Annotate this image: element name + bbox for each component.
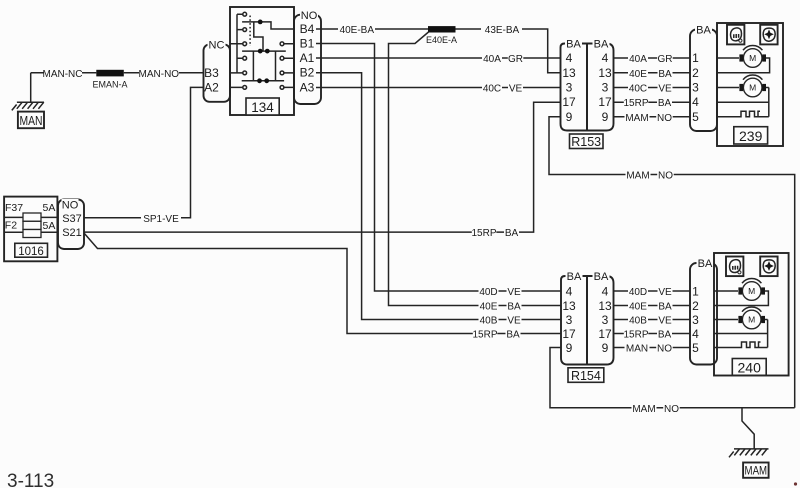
svg-text:VE: VE — [507, 287, 521, 298]
svg-text:MAN-NO: MAN-NO — [139, 69, 180, 80]
svg-text:15RP: 15RP — [623, 98, 648, 109]
svg-text:9: 9 — [566, 110, 573, 124]
svg-text:9: 9 — [566, 341, 573, 355]
wire MAN-NO — [124, 68, 204, 81]
ground MAM (bottom right) — [729, 449, 769, 478]
svg-text:MAM: MAM — [632, 404, 655, 415]
svg-text:BA: BA — [507, 302, 521, 313]
svg-text:5: 5 — [692, 341, 699, 355]
svg-text:134: 134 — [251, 100, 274, 115]
wire junction down to ground MAM — [742, 408, 795, 449]
134 designation label — [246, 98, 279, 115]
motor M1 of 239 — [739, 46, 766, 68]
134 contact bar 1 (to B4) — [242, 20, 294, 30]
wire 40B-VE (B2 to R154 pin 3) — [316, 73, 561, 327]
connector bracket NO/S37/S21 of 1016 — [58, 199, 84, 249]
icon fan 239 — [760, 25, 777, 45]
svg-text:40B: 40B — [480, 316, 498, 327]
134 internal contact terminals (left circles) — [243, 12, 247, 89]
svg-text:R153: R153 — [571, 135, 601, 149]
svg-text:17: 17 — [598, 95, 612, 109]
svg-text:BA: BA — [658, 302, 672, 313]
134 mechanical link (dashed) — [249, 16, 251, 47]
svg-text:40A: 40A — [629, 54, 647, 65]
svg-text:VE: VE — [658, 84, 672, 95]
svg-text:40D: 40D — [479, 287, 497, 298]
svg-text:17: 17 — [562, 95, 576, 109]
wire 15RP-BA (S21 to R153 pin 17) — [84, 102, 561, 239]
svg-text:SP1-VE: SP1-VE — [143, 214, 179, 225]
svg-text:S37: S37 — [62, 213, 82, 225]
wire 239 pin4 — [717, 101, 769, 103]
svg-text:15RP: 15RP — [623, 330, 648, 341]
svg-text:3: 3 — [692, 81, 699, 95]
svg-text:S21: S21 — [62, 227, 82, 239]
svg-text:3: 3 — [566, 313, 573, 327]
splice EMAN-A — [92, 70, 127, 90]
239 designation label — [734, 127, 768, 144]
heater blower unit box 239 — [717, 23, 783, 146]
svg-text:BA: BA — [658, 98, 672, 109]
svg-text:13: 13 — [598, 299, 612, 313]
svg-text:4: 4 — [566, 51, 573, 65]
134 links bar2 to bar3 — [253, 51, 275, 81]
resistor 239 — [738, 111, 769, 117]
svg-text:GR: GR — [658, 54, 673, 65]
svg-text:BA: BA — [658, 69, 672, 80]
wire 240 pin1 to motor M1 — [714, 290, 738, 292]
svg-text:NC: NC — [209, 40, 225, 52]
svg-text:MAM: MAM — [745, 464, 768, 478]
svg-text:EMAN-A: EMAN-A — [92, 79, 127, 89]
wire 40A-GR (R153 pin 1 side) — [614, 53, 691, 65]
svg-text:BA: BA — [506, 330, 520, 341]
icon heater 240 — [726, 257, 743, 277]
svg-text:MAM: MAM — [626, 171, 649, 182]
svg-text:BA: BA — [696, 25, 711, 37]
svg-text:1016: 1016 — [18, 246, 44, 258]
fuse elements F37/F2 — [23, 213, 41, 238]
wire resistor to motor M2 return — [765, 320, 768, 348]
wire MAN-NO (R154 pin 5 side) — [614, 342, 691, 354]
svg-text:R154: R154 — [571, 369, 601, 383]
svg-text:BA: BA — [594, 39, 609, 51]
svg-text:VE: VE — [507, 316, 521, 327]
134 link bar1 to bar2 — [254, 22, 263, 51]
wire MAM-NO (R153 pin 9 to ground net) — [549, 117, 795, 408]
wire 40E-BA branch (splice to R154 pin 13) — [389, 32, 562, 313]
svg-text:BA: BA — [594, 271, 609, 283]
connector bracket BA 1-5 of 239 — [690, 25, 717, 131]
svg-text:MAN-NC: MAN-NC — [43, 69, 83, 80]
svg-text:5A: 5A — [43, 220, 56, 232]
240 designation label — [732, 359, 766, 376]
ground MAN (top left) — [12, 73, 44, 128]
svg-text:40E: 40E — [480, 302, 498, 313]
svg-text:4: 4 — [566, 284, 573, 298]
wire 40E-BA (R154 pin 2 side) — [614, 300, 691, 312]
134 internal pin stubs — [230, 44, 294, 88]
wire 40D-VE (B1 to R154 pin 4) — [316, 44, 561, 299]
svg-text:BA: BA — [567, 271, 582, 283]
svg-text:40C: 40C — [629, 84, 647, 95]
svg-text:40A: 40A — [483, 54, 501, 65]
svg-text:40D: 40D — [629, 287, 647, 298]
wire 239 pin2 to motor M1 return — [717, 58, 770, 73]
svg-text:2: 2 — [692, 299, 699, 313]
svg-text:40B: 40B — [629, 316, 647, 327]
svg-text:B1: B1 — [300, 37, 315, 51]
svg-text:A1: A1 — [300, 51, 315, 65]
wire 40C-VE (R153 pin 3 side) — [614, 82, 691, 94]
svg-text:VE: VE — [658, 287, 672, 298]
wire 240 pin2 to motor M1 return — [714, 291, 768, 306]
wire 40C-VE (A3 to R153 pin 3) — [316, 82, 561, 94]
svg-text:E40E-A: E40E-A — [426, 35, 457, 45]
svg-text:15RP: 15RP — [472, 330, 497, 341]
wire 40E-BA / 43E-BA (B4 to R153 pin 13) — [316, 24, 561, 73]
svg-text:VE: VE — [509, 84, 523, 95]
svg-text:NO: NO — [657, 344, 672, 355]
svg-text:1: 1 — [692, 51, 699, 65]
wire 239 pin1 to motor M1 — [717, 57, 739, 59]
svg-text:F37: F37 — [5, 202, 23, 214]
icon heater 239 — [727, 25, 744, 45]
connector bracket NC/B3/A2 of 134 — [204, 40, 231, 102]
svg-text:13: 13 — [598, 66, 612, 80]
svg-text:3: 3 — [692, 313, 699, 327]
wire 240 pin4 — [714, 333, 768, 335]
svg-text:BA: BA — [566, 39, 581, 51]
wire MAM-NO (R153 pin 5 side) — [614, 112, 691, 124]
fuse box 1016 — [4, 197, 57, 262]
wire MAN-NO / MAM-NO (R154 pin 9 to ground MAM) — [550, 348, 742, 415]
wire 40D-VE (R154 pin 1 side) — [614, 286, 691, 298]
connector bracket BA 1-5 of 240 — [690, 258, 717, 364]
connector R154 — [561, 271, 614, 364]
heater blower unit box 240 — [714, 253, 789, 376]
svg-text:BA: BA — [658, 330, 672, 341]
wire 240 pin5 to resistor — [714, 347, 739, 349]
134 internal left bus — [237, 14, 243, 73]
svg-text:239: 239 — [739, 128, 763, 144]
wire resistor to motor M2 return — [766, 88, 769, 117]
wire SP1-VE (fuse S37 to 134 pin A2) — [84, 87, 204, 225]
svg-text:NO: NO — [301, 10, 318, 22]
svg-text:3-113: 3-113 — [7, 471, 54, 488]
svg-text:13: 13 — [562, 299, 576, 313]
wire 240 pin3 to motor M2 — [714, 319, 738, 321]
svg-text:240: 240 — [738, 360, 762, 376]
svg-text:43E-BA: 43E-BA — [485, 25, 520, 36]
svg-text:BA: BA — [505, 228, 519, 239]
R154 designation label — [568, 368, 604, 383]
svg-text:4: 4 — [602, 51, 609, 65]
svg-text:40E: 40E — [629, 302, 647, 313]
svg-text:40E: 40E — [629, 69, 647, 80]
svg-text:B2: B2 — [300, 66, 315, 80]
svg-text:F2: F2 — [5, 220, 17, 232]
motor M1 of 240 — [738, 279, 765, 301]
svg-text:3: 3 — [602, 81, 609, 95]
wire 239 pin5 to resistor — [717, 116, 738, 118]
icon fan 240 — [760, 257, 777, 277]
svg-text:3: 3 — [566, 81, 573, 95]
svg-text:2: 2 — [692, 66, 699, 80]
svg-text:A2: A2 — [204, 81, 219, 95]
134 contact bar 3 — [242, 78, 284, 83]
svg-text:GR: GR — [508, 54, 523, 65]
svg-text:NO: NO — [657, 113, 672, 124]
svg-text:40E-BA: 40E-BA — [340, 25, 375, 36]
R153 designation label — [570, 134, 604, 149]
svg-text:40C: 40C — [483, 84, 501, 95]
svg-text:NO: NO — [62, 199, 79, 211]
svg-text:17: 17 — [598, 327, 612, 341]
1016 designation label — [15, 243, 48, 257]
svg-text:B4: B4 — [300, 22, 315, 36]
svg-text:15RP: 15RP — [471, 228, 496, 239]
wire 40E-BA (R153 pin 2 side) — [614, 68, 691, 80]
wire 15RP-BA (R153 pin 4 side) — [614, 97, 691, 109]
svg-text:1: 1 — [692, 284, 699, 298]
motor M2 of 239 — [739, 75, 766, 97]
svg-text:A3: A3 — [300, 80, 315, 94]
wire 40A-GR (A1 to R153 pin 4) — [316, 53, 561, 65]
svg-text:VE: VE — [658, 316, 672, 327]
134 internal right circles — [280, 42, 284, 89]
svg-text:MAM: MAM — [625, 113, 648, 124]
motor M2 of 240 — [738, 307, 765, 329]
svg-text:4: 4 — [692, 95, 699, 109]
wire 40B-VE (R154 pin 3 side) — [614, 314, 691, 326]
svg-text:B3: B3 — [204, 66, 219, 80]
svg-text:4: 4 — [602, 284, 609, 298]
wire 15RP-BA branch (S21 to R154 pin 17) — [84, 233, 561, 341]
svg-text:4: 4 — [692, 327, 699, 341]
svg-text:13: 13 — [562, 66, 576, 80]
svg-text:9: 9 — [602, 341, 609, 355]
connector R153 — [561, 39, 614, 131]
svg-text:NO: NO — [664, 404, 679, 415]
svg-text:MAN: MAN — [20, 114, 43, 128]
wire 239 pin3 to motor M2 — [717, 87, 739, 89]
scan speck — [794, 482, 797, 485]
134 contact bar 2 — [242, 49, 286, 54]
svg-text:MAN: MAN — [626, 344, 648, 355]
svg-text:9: 9 — [602, 110, 609, 124]
wire 15RP-BA (R154 pin 4 side) — [614, 328, 691, 340]
splice E40E-A — [426, 26, 457, 45]
svg-text:5: 5 — [692, 110, 699, 124]
relay box 134 — [230, 7, 294, 115]
resistor 240 — [739, 342, 768, 348]
wire MAN-NC — [31, 68, 97, 81]
svg-text:3: 3 — [602, 313, 609, 327]
svg-text:5A: 5A — [43, 202, 56, 214]
connector bracket NO/B4/B1/A1/B2/A3 of 134 — [294, 10, 321, 104]
svg-text:BA: BA — [698, 258, 713, 270]
svg-text:NO: NO — [658, 171, 673, 182]
svg-text:17: 17 — [562, 327, 576, 341]
